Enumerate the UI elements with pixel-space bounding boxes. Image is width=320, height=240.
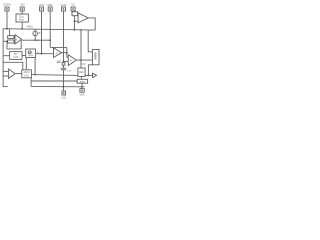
svg-text:LDO: LDO xyxy=(13,56,18,59)
wire down into A2 top input xyxy=(54,47,56,49)
buffer B2 xyxy=(92,73,96,77)
op-amp A2 xyxy=(54,48,62,58)
wire OSC corner down to L5 xyxy=(30,78,32,87)
junction dot L5/BP1 xyxy=(63,86,65,88)
junction dot L4 xyxy=(63,80,65,82)
svg-text:MAIN: MAIN xyxy=(24,71,30,74)
wire border to R2 xyxy=(3,40,8,42)
svg-text:BIAS: BIAS xyxy=(80,80,86,83)
border bottom stub xyxy=(3,86,8,88)
wire DCDC right down to L3 xyxy=(34,58,36,75)
pin BP2 xyxy=(80,89,84,93)
wire REF out to B2 xyxy=(85,74,92,76)
junction dot A3 out xyxy=(80,59,82,61)
wire border to OSC top xyxy=(3,62,23,70)
box U6 input stage xyxy=(72,12,78,16)
box DCDC xyxy=(26,49,36,58)
svg-text:IB: IB xyxy=(38,32,41,35)
pin P6 xyxy=(71,7,75,11)
svg-text:SHDN: SHDN xyxy=(3,3,11,7)
junction dot B1/L1 xyxy=(21,28,23,30)
wire border to A5 in2 xyxy=(3,75,9,77)
wire B1 down xyxy=(21,22,23,29)
wire P2 down xyxy=(21,11,23,14)
svg-text:VBG: VBG xyxy=(80,93,85,96)
wire P4 down xyxy=(49,11,51,47)
junction dot A2 out xyxy=(66,52,68,54)
pin P4 xyxy=(48,7,52,11)
feedback loop A1 xyxy=(7,40,21,49)
wire DCDC down to OSC xyxy=(25,58,27,70)
box LDO xyxy=(10,52,22,60)
feedback vertical A2 xyxy=(66,47,68,57)
junction dot feedback xyxy=(6,41,7,42)
resistor R1 xyxy=(8,36,14,39)
pin IN+ (P1) xyxy=(5,7,9,11)
current arrow marker on L2 xyxy=(37,39,39,41)
pin P5 xyxy=(62,7,66,11)
wire R1 to A1 xyxy=(14,36,15,38)
svg-text:ΔΣ: ΔΣ xyxy=(57,60,61,64)
capacitor C1 xyxy=(61,67,67,69)
big box DRV xyxy=(92,50,99,65)
svg-text:Pmp: Pmp xyxy=(19,18,25,21)
wire P5 down xyxy=(63,11,65,62)
node dot P5 branch xyxy=(63,61,65,63)
rail L2 from A1 output xyxy=(22,39,51,41)
box B1 charge pump xyxy=(16,14,28,22)
resistor R2 xyxy=(8,40,14,43)
wire A4 output xyxy=(88,18,95,30)
wire P3 down xyxy=(41,11,43,54)
wire box down to node xyxy=(73,16,75,30)
svg-text:A: A xyxy=(16,38,18,41)
wire R3 to cap xyxy=(63,65,65,68)
wire up to big box bottom xyxy=(88,65,92,76)
svg-text:OSC: OSC xyxy=(24,75,29,77)
svg-text:REF: REF xyxy=(48,3,54,7)
op-amp A3 xyxy=(68,55,76,66)
junction dot B2 input xyxy=(88,75,90,77)
junction dot P1/L1 xyxy=(6,28,8,30)
resistor R3 on P5 line xyxy=(62,63,65,66)
vertical text in box xyxy=(94,52,96,59)
current source I1 lead up xyxy=(34,29,36,31)
svg-text:o: o xyxy=(32,53,34,55)
wire node to A3 lower input xyxy=(64,61,69,63)
junction dot L5 xyxy=(81,86,83,88)
wire to A3 upper input xyxy=(67,56,69,58)
op-amp A1 xyxy=(15,35,22,44)
svg-text:VREG: VREG xyxy=(26,26,33,28)
wire DCDC output to A2 xyxy=(36,53,54,55)
junction dot L1 x81 xyxy=(80,29,82,31)
op-amp A4 xyxy=(78,13,88,23)
pin IN- (P2) xyxy=(20,7,24,11)
P4 top rail to A2 feedback xyxy=(50,46,67,48)
wire P6 down xyxy=(72,10,74,13)
pin P3 xyxy=(40,7,44,11)
wire border to A5 in1 xyxy=(3,70,9,72)
wire node to A4 lower input xyxy=(74,20,78,22)
wire I1 down xyxy=(34,36,36,41)
arrow I1 xyxy=(34,32,36,35)
rail L3 xyxy=(31,74,78,77)
box REF xyxy=(78,68,85,76)
box BIAS xyxy=(77,79,87,83)
wire LDO to DCDC xyxy=(22,55,26,57)
junction dot L3 xyxy=(34,74,36,76)
wire cap down xyxy=(63,70,65,92)
svg-text:RQ: RQ xyxy=(82,63,86,66)
wire L1 down to REF xyxy=(80,30,82,68)
op-amp A5 xyxy=(9,69,15,78)
junction dot L2/P4 wire xyxy=(49,39,51,41)
wire R2 to A1 xyxy=(14,41,15,43)
wire P1 down xyxy=(6,11,8,29)
wire L1 down to big box pin1 xyxy=(88,30,92,52)
svg-text:REF: REF xyxy=(79,72,84,74)
wire REF to box2 xyxy=(80,76,82,79)
svg-text:A2: A2 xyxy=(70,59,73,62)
wire A5 to OSC xyxy=(15,73,22,75)
rail L1 xyxy=(3,29,95,30)
pin BP1 xyxy=(62,91,66,95)
junction dot P3/DCDC wire xyxy=(41,53,43,55)
rail L4 xyxy=(31,80,77,82)
svg-text:VS: VS xyxy=(71,3,75,7)
svg-text:VIN: VIN xyxy=(20,3,25,7)
box OSC xyxy=(22,70,32,78)
svg-text:4.3V: 4.3V xyxy=(67,71,72,73)
junction dot I1/L2 xyxy=(34,39,36,41)
wire A3 output to box xyxy=(76,59,92,61)
wire border to LDO xyxy=(3,55,10,57)
svg-text:GND: GND xyxy=(61,3,67,7)
node dot A4 lower input xyxy=(74,20,76,22)
wire A2 output xyxy=(62,52,67,54)
wire box to A4 upper input xyxy=(77,13,80,15)
svg-text:CLK: CLK xyxy=(61,96,66,99)
left border wire xyxy=(2,29,4,87)
wire BIAS down xyxy=(81,83,83,88)
junction dot P6/L1 xyxy=(74,29,76,31)
current source I1 xyxy=(33,31,38,36)
svg-text:VDD: VDD xyxy=(39,3,45,7)
wire L1 to R1 xyxy=(9,29,11,36)
rail L5 xyxy=(31,85,84,87)
